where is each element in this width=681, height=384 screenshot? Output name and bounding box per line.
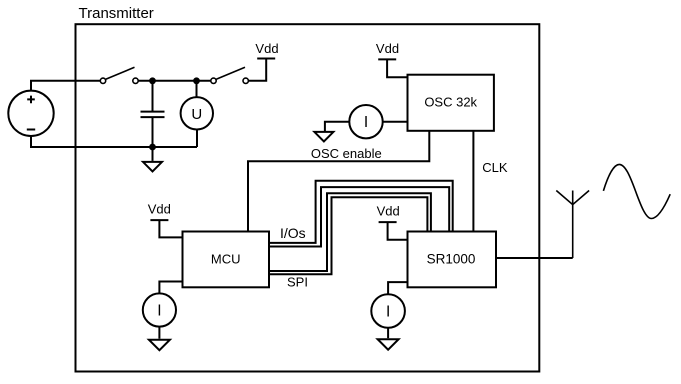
- SPI bus wire 2: [269, 197, 427, 274]
- ground below I3: [378, 339, 399, 350]
- wire top rail from source: [31, 81, 100, 91]
- CLK wire: [472, 131, 474, 232]
- svg-text:MCU: MCU: [211, 251, 241, 266]
- svg-text:Vdd: Vdd: [376, 41, 399, 56]
- OSC enable label: [311, 146, 382, 161]
- ground below I2: [149, 340, 170, 351]
- svg-text:Vdd: Vdd: [255, 41, 278, 56]
- svg-text:OSC enable: OSC enable: [311, 146, 382, 161]
- I/Os bus wire 2: [269, 187, 449, 246]
- Transmitter label: [79, 5, 154, 22]
- ground arrow at OSC enable input: [314, 132, 333, 142]
- ammeter I2 (MCU supply): [143, 282, 183, 339]
- wire switch S1 to node B: [138, 80, 211, 82]
- I/Os bus wire 1: [269, 181, 453, 243]
- Vdd supply at switch: [255, 41, 278, 59]
- SPI bus wire 1: [269, 193, 431, 271]
- antenna feed wire: [496, 257, 573, 259]
- ammeter I3 (SR1000 supply): [371, 282, 407, 338]
- OSC enable wire MCU to OSC: [248, 131, 429, 232]
- svg-text:I: I: [364, 114, 368, 131]
- sine wave: [603, 164, 670, 218]
- Vdd supply at MCU: [148, 201, 183, 237]
- ground below capacitor: [143, 147, 162, 172]
- node B junction dot: [193, 77, 200, 84]
- switch S1: [100, 67, 138, 83]
- node A junction dot: [149, 77, 156, 84]
- svg-text:I: I: [157, 303, 161, 320]
- OSC 32k box: [408, 75, 494, 131]
- svg-text:SPI: SPI: [287, 275, 308, 290]
- svg-text:Transmitter: Transmitter: [79, 5, 154, 22]
- svg-text:CLK: CLK: [482, 160, 508, 175]
- voltmeter U: [181, 81, 213, 147]
- CLK label: [482, 160, 508, 175]
- antenna: [556, 191, 589, 259]
- svg-text:I: I: [386, 304, 390, 321]
- transmitter box: [76, 24, 540, 371]
- I/Os label: [280, 225, 306, 241]
- voltage source V1: [8, 91, 53, 136]
- node C junction dot: [149, 144, 156, 151]
- svg-text:I/Os: I/Os: [280, 225, 306, 241]
- wire switch S2 to Vdd: [248, 59, 266, 81]
- svg-text:SR1000: SR1000: [427, 251, 476, 266]
- capacitor C1: [141, 81, 165, 147]
- MCU box: [183, 232, 270, 288]
- svg-text:U: U: [191, 106, 202, 123]
- svg-text:Vdd: Vdd: [377, 204, 400, 219]
- switch S2: [211, 67, 249, 83]
- ammeter I1 (OSC supply): [325, 105, 408, 138]
- SR1000 box: [408, 232, 497, 288]
- Vdd supply at OSC: [376, 41, 408, 77]
- svg-text:Vdd: Vdd: [148, 201, 171, 216]
- svg-text:OSC 32k: OSC 32k: [424, 95, 477, 110]
- SPI label: [287, 275, 308, 290]
- Vdd supply at SR1000: [377, 204, 408, 240]
- wire bottom rail from source: [31, 136, 197, 147]
